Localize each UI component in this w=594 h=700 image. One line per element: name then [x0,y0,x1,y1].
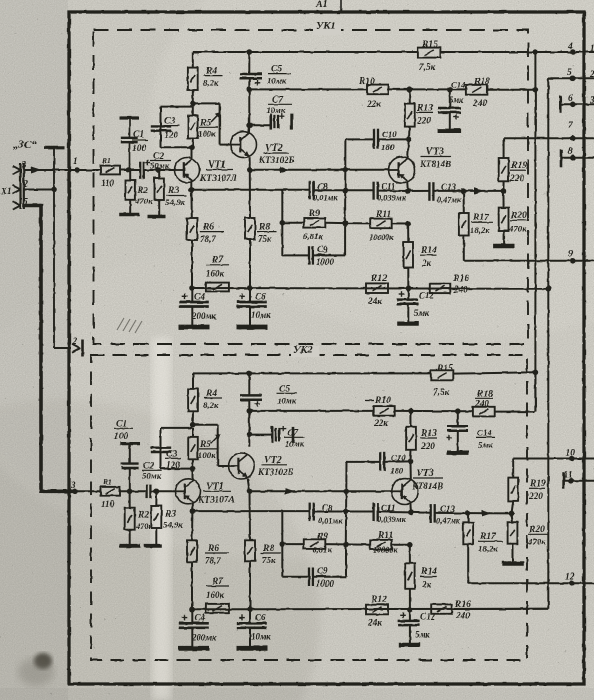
wire C6 lower [249,307,251,326]
resistor R15 [418,48,441,58]
label R11 (UK2) [373,531,398,555]
resistor R4 (UK2) [188,389,198,411]
wire R18 to rail A [488,89,536,91]
pin 5 [567,68,576,81]
junction rail A / R15 (UK2) [533,370,539,376]
wire R1 to C2 (UK2) [120,490,146,492]
wire pin5 line [548,77,594,79]
svg-text:180: 180 [381,142,395,152]
plus sign C14 [453,114,459,120]
svg-text:R12: R12 [370,595,387,605]
capacitor C7 right terminal bar (UK2) [292,426,295,443]
wire R10 to R18 (UK2) [395,410,473,412]
resistor R1 (UK2) [101,487,121,496]
wire R15 to pin4 [441,51,594,53]
svg-text:КТ814В: КТ814В [411,481,443,491]
junction R17 top [461,188,467,194]
resistor R19 (UK2) [508,478,518,501]
resistor R11 [370,219,392,229]
wire pin11 [564,480,594,482]
pin 8 terminal bar [560,149,563,167]
wire R19 top corner (UK2) [512,459,514,478]
wire C2 to VT1 base (UK2) [151,490,176,492]
label C8 [313,182,338,203]
svg-text:С10: С10 [382,129,397,139]
wire VT2 emitter down (UK2) [248,479,250,492]
capacitor C13 (UK2) [431,504,435,522]
capacitor C3 loop bottom (UK2) [161,468,193,470]
label R14 [420,246,437,268]
svg-text:24к: 24к [367,297,382,307]
plus sign C7 [279,114,284,119]
label R19 (UK2) [528,479,546,502]
rail B vertical [547,78,549,609]
junction C10/R13/VT3 collector [406,137,412,143]
svg-text:470к: 470к [134,196,153,206]
resistor R18 (UK2) [473,407,495,417]
capacitor C14 (UK2) [447,426,468,430]
svg-text:С1: С1 [116,420,127,430]
label R2 [134,186,153,206]
svg-text:R20: R20 [510,211,527,221]
svg-text:8,2к: 8,2к [203,78,219,88]
label R7 (UK2) [206,577,229,600]
wire input UK2 [75,490,101,492]
junction R14/C12 [406,286,412,292]
wire VT1 emitter down [190,182,192,190]
resistor R12 [366,283,388,293]
resistor R10 [367,85,388,95]
junction R4/R5 node (UK2) [190,422,196,428]
svg-text:200мк: 200мк [191,633,217,643]
wire C11 to VT3 node (UK2) [378,511,411,514]
capacitor C10 [374,129,378,149]
svg-text:0,47мк: 0,47мк [436,517,461,526]
common bar under R3 (UK2) [144,544,162,548]
resistor R14 (UK2) [405,563,414,589]
svg-text:0,039мк: 0,039мк [377,194,407,203]
capacitor C3 loop top wire [161,106,193,108]
wire pin8 [561,157,594,159]
svg-text:0,47мк: 0,47мк [437,196,462,205]
wire C14 upper lead [449,90,451,108]
junction R17 top (UK2) [465,510,471,516]
capacitor C2 (UK2) [147,485,151,499]
wire C2 to VT1 base [144,169,175,171]
junction R14/C12 (UK2) [407,607,413,613]
svg-text:100к: 100к [198,129,216,139]
wire R19 top lead [503,138,505,158]
label C11 (UK2) [377,503,407,524]
plus sign C5 (UK2) [255,401,261,407]
label R5 (UK2) [198,440,218,460]
pin 12 [565,573,575,587]
node 1 (UK1 input pin) [73,156,80,173]
label C2 [150,152,171,171]
svg-text:5мк: 5мк [414,308,430,318]
capacitor C3 loop top (UK2) [161,427,193,429]
label R8 (UK2) [261,544,281,566]
pin 10 [566,449,576,462]
label VT2 [258,143,295,165]
svg-text:R11: R11 [375,210,391,220]
svg-text:„ЗС“: „ЗС“ [13,139,37,151]
wire pin6 [560,103,594,105]
svg-text:R16: R16 [452,274,469,284]
svg-text:С6: С6 [255,292,266,302]
resistor R7 (UK2) [206,604,229,613]
wire R8 top [249,170,251,218]
label R17 [470,213,493,235]
wire R13 top lead (UK2) [410,411,412,427]
shield terminal bar [44,146,65,149]
capacitor C7 right terminal bar [290,114,293,130]
label R18 (UK2) [474,390,493,410]
capacitor C9 [309,246,313,264]
resistor R13 (UK2) [406,427,416,450]
svg-text:75к: 75к [262,556,276,566]
capacitor C4 (UK2) [179,623,209,628]
svg-text:С6: С6 [255,613,266,623]
wire R4 bottom (UK2) [192,411,194,424]
common bar under R2 [119,213,140,217]
wire VT2 base stub [220,144,231,146]
capacitor C12 lead (UK2) [409,610,411,621]
junction VT1 collector node (UK2) [190,466,196,472]
wire C8 to C11 [314,189,374,191]
wire VT3 emitter down (UK2) [409,503,412,512]
capacitor C9 loop left (UK2) [282,544,309,577]
junction R13 top [407,87,413,93]
svg-text:180: 180 [390,466,404,476]
label C5 (UK2) [277,385,297,406]
label C14 (UK2) [476,428,495,450]
wire VT1 collector up (UK2) [192,469,194,480]
svg-text:5мк: 5мк [449,95,464,105]
capacitor C13 wire left (UK2) [411,511,431,513]
wire R8 top (UK2) [249,491,252,540]
wire R11 right [392,222,408,224]
top rail wire (UK2) [193,372,431,374]
junction R9 left [280,220,286,226]
connector X1 pin 5 chevron [13,197,29,210]
resistor R20 (UK2) [508,522,518,544]
capacitor C8 [310,181,314,199]
label VT1 [199,160,238,185]
capacitor C6 lead [249,288,251,301]
resistor R18 [466,85,488,95]
main mid wire (UK2) [250,490,392,492]
junction C7 tap [247,123,253,129]
pin 8 [568,147,576,161]
svg-text:С9: С9 [317,245,328,255]
svg-text:УК2: УК2 [293,345,313,356]
label R15 [419,40,438,73]
wire R3 bottom [158,200,160,216]
wire R17 bottom lead [463,236,465,261]
wire C7 left lead (UK2) [250,434,273,436]
wire R5 top (UK2) [192,428,194,437]
wire R20 top lead (UK2) [512,513,513,522]
wire C12 lower [407,304,409,322]
pin 11 terminal bar [562,472,565,489]
wire R2 bottom [129,200,131,214]
resistor R2 [126,180,135,200]
resistor R11 (UK2) [370,540,392,550]
wire C4 lower (UK2) [191,628,193,647]
svg-text:R10: R10 [374,396,391,406]
capacitor C10 (UK2) [380,452,384,471]
svg-text:R17: R17 [472,213,490,223]
svg-text:3: 3 [70,480,76,490]
wire C13 right (UK2) [435,512,512,515]
wire C14 lower lead (UK2) [457,431,459,451]
wire R6 bottom (UK2) [191,562,193,609]
svg-text:R11: R11 [377,531,393,541]
wire R17 top lead [463,191,465,213]
junction R13 top (UK2) [408,408,414,414]
label R4 (UK2) [203,389,222,410]
svg-text:240: 240 [453,286,468,296]
svg-text:120: 120 [166,461,181,471]
label C13 [437,182,462,205]
svg-text:1: 1 [590,43,594,53]
capacitor C7 left terminal bar (UK2) [271,426,274,443]
junction C7 tap (UK2) [247,432,253,438]
junction R8/C6 [247,285,253,291]
svg-text:2к: 2к [421,580,432,590]
svg-text:R1: R1 [102,478,112,487]
svg-text:7,5к: 7,5к [433,388,450,398]
node 3 (UK2 input pin) [70,480,78,494]
svg-text:С14: С14 [451,80,466,90]
pin 11 [564,471,574,484]
resistor R2 (UK2) [125,508,135,530]
dashed block boundary UK1 (channel 1) [94,30,529,344]
rail A bottom corner (UK2) [534,372,536,411]
svg-text:VT3: VT3 [426,147,444,158]
label R10 [358,77,381,110]
capacitor C4 lead [191,288,193,301]
svg-text:4: 4 [567,42,573,52]
svg-text:С12: С12 [419,291,435,301]
capacitor C1 [121,138,138,142]
wire C10 right [378,138,409,140]
common bar under C12 [397,322,419,326]
resistor R10 (UK2) [374,406,395,416]
junction R9 right [342,220,348,226]
capacitor C4 lead (UK2) [191,609,193,622]
label R4 [203,67,222,88]
wire VT3 collector up [408,140,409,158]
svg-text:78,7: 78,7 [200,234,216,244]
label R9 (UK2) [312,532,332,555]
label R16 (UK2) [454,600,471,622]
junction R19/R20/C13 node [501,188,507,194]
capacitor C1 lead lower (UK2) [129,468,131,491]
plus sign C6 [239,294,245,300]
junction C14 top (UK2) [455,408,461,414]
svg-text:220: 220 [509,174,524,184]
pin 9 [568,249,576,264]
capacitor C12 lead [407,289,409,300]
wire pin5 horizontal (thick) [24,204,41,208]
svg-text:КТ814В: КТ814В [419,159,451,169]
pin 6 [568,94,576,107]
label R17 (UK2) [478,532,503,554]
wire R3 top [158,170,160,178]
capacitor C11 [374,182,378,200]
plus sign C14 (UK2) [446,435,452,441]
svg-text:R15: R15 [436,364,453,374]
resistor R4 [188,68,198,90]
wire C14 upper lead (UK2) [457,411,459,426]
vertical from emitter bus to R9 [281,190,283,223]
svg-text:24к: 24к [367,619,382,629]
capacitor C2 (coupling) [140,161,144,179]
capacitor C3 [151,126,171,130]
common bar under R3 [148,215,166,219]
wire C8 to C11 (UK2) [314,511,374,513]
svg-text:22к: 22к [373,419,388,429]
wire R11 right (UK2) [392,544,410,546]
signal arrow mid [280,167,290,174]
svg-text:VT3: VT3 [416,468,434,479]
dashed block boundary UK2 (channel 2) [91,355,527,660]
svg-text:470к: 470к [527,537,546,547]
junction VT3 emitter node (UK2) [408,510,414,516]
label R11 [369,210,394,242]
svg-text:160к: 160к [206,269,225,279]
svg-text:С13: С13 [440,504,456,514]
svg-text:R3: R3 [164,510,176,520]
capacitor C3 loop left wire [160,107,162,148]
junction VT1 collector / C3 / R5 [189,145,195,151]
wire C5 lower lead (UK2) [248,400,250,411]
input signal arrow [31,167,42,174]
svg-text:10: 10 [566,449,576,459]
signal arrow mid (UK2) [285,488,295,495]
adjust arrow at R5 [211,112,221,122]
junction VT1 emitter node [189,187,195,193]
label R10 (UK2) [365,396,391,429]
plus sign C2 [145,160,151,166]
transistor VT2 (KT3102B, npn) [231,132,257,158]
common bar under C14 (UK2) [447,451,469,455]
wire R19 bottom lead (UK2) [512,501,514,514]
wire VT1 emitter bus (UK2) [192,510,309,512]
transistor VT2 (UK2, KT3102B) [229,453,255,479]
common bar under C12 (UK2) [399,643,420,647]
label C1 (UK2) [114,420,133,443]
label R16 [452,274,469,296]
wire VT1 emitter bus [191,189,309,191]
connector X1 label [0,186,12,196]
junction rail A top [533,49,539,55]
svg-text:110: 110 [101,499,115,509]
capacitor C3 loop left (UK2) [160,428,162,469]
svg-text:R15: R15 [421,40,438,50]
junction R6/C4 [189,285,195,291]
capacitor C1 lead upper (UK2) [129,444,131,464]
junction R9 left (UK2) [280,541,286,547]
junction rail A / R18 wire [533,87,539,93]
label C13 (UK2) [436,504,461,526]
wire VT2 emitter down [249,157,251,170]
resistor R3 [155,178,164,200]
adjust arrow at R5 (UK2) [211,433,221,443]
svg-text:10000к: 10000к [373,546,398,555]
wire R14 top [407,224,409,243]
junction VT3 emitter node [405,188,411,194]
svg-text:10000к: 10000к [369,233,394,242]
junction R8/C6 (UK2) [247,607,253,613]
svg-text:УК1: УК1 [316,21,336,32]
label C9 (UK2) [316,566,335,589]
svg-text:5: 5 [567,68,572,78]
top rail wire (R4 corner to R15) [193,51,418,53]
wire R3 bottom (UK2) [155,528,157,544]
label C7 [266,96,292,116]
wire node to R5 [192,103,194,106]
svg-text:R7: R7 [211,256,224,266]
wire R8 bottom [249,239,251,288]
svg-text:0,01мк: 0,01мк [313,194,338,203]
capacitor C6 (UK2) [237,623,267,628]
wire R20 bottom lead (UK2) [512,544,514,562]
svg-text:2к: 2к [421,258,432,268]
svg-text:240: 240 [472,99,487,109]
resistor R5 [188,116,198,138]
junction C5 bottom [247,87,253,93]
label VT3 (UK2) [411,468,443,491]
common bar under R20 [493,244,514,248]
svg-text:10мк: 10мк [251,632,271,642]
svg-text:470к: 470к [508,224,527,234]
wire R5 top [192,107,194,116]
svg-text:2: 2 [72,337,78,347]
junction C1/R2 (UK2) [127,489,133,495]
capacitor C13 wire left [408,190,429,192]
label C6 (UK2) [251,613,271,642]
svg-text:R9: R9 [316,532,328,542]
junction VT1 emitter node (UK2) [190,508,196,514]
wire C5 lower lead [248,79,250,90]
resistor R17 [459,213,469,236]
wire R20 top lead [502,191,504,208]
wire R4 bottom [192,90,194,103]
svg-text:100к: 100к [198,450,216,460]
svg-text:5мк: 5мк [478,440,493,450]
svg-text:R19: R19 [510,161,527,171]
capacitor C13 [429,182,433,201]
label R18 [472,77,490,109]
resistor R6 [187,218,197,240]
capacitor C9 loop left [282,223,309,256]
wire C14 lower lead [449,113,451,130]
common bar under C14 [438,129,462,133]
transistor VT1 (UK2, KT3107A) [176,479,201,504]
wire pin7 line [504,137,594,139]
junction C5 top [247,49,253,55]
external pin digit 2 [589,69,594,79]
svg-text:R14: R14 [420,246,437,256]
wire C12 lower (UK2) [409,625,411,643]
capacitor C11 (UK2) [374,503,378,521]
label VT1 (UK2) [197,482,235,506]
connector X1 body (double bar) [21,163,24,209]
wire R9 right [325,222,345,224]
